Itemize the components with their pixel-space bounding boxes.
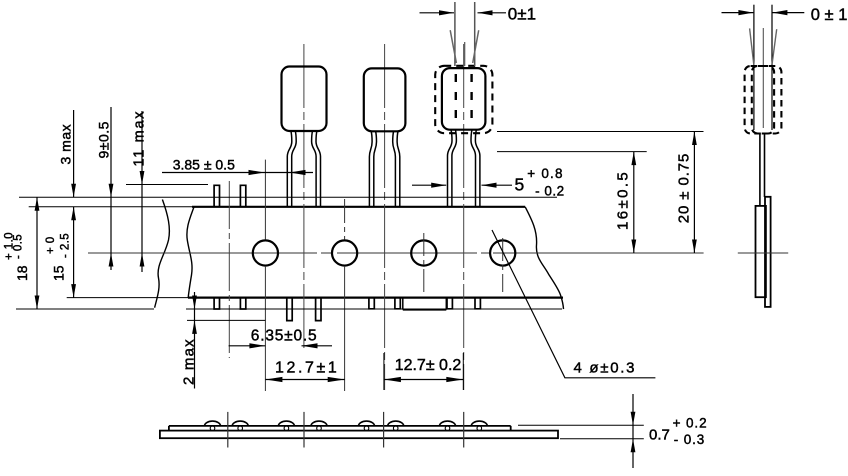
svg-text:+ 0.2: + 0.2 [673,416,708,431]
lead stub top-left position 1 [214,185,219,207]
crimped leads position 2 [287,131,292,207]
svg-text:+ 0.8: + 0.8 [527,166,563,181]
lead bump position 4R bottom view [471,421,487,426]
svg-text:11 max: 11 max [132,110,148,167]
node tape right break line [525,207,563,309]
node bottom view centerline 2 [303,412,305,448]
dimension 3 max [73,110,75,197]
svg-text:3.85 ± 0.5: 3.85 ± 0.5 [173,157,235,173]
capacitor position 4 inner dashed line left [455,74,457,118]
lead stub bottom-left position 2 [287,298,292,321]
node hole 4 centerline [502,238,504,292]
svg-text:16±0.5: 16±0.5 [615,170,632,230]
wire tape-bottom extension line left [67,297,188,299]
node position-1 centerline [228,181,230,358]
node position-2 centerline [303,44,305,352]
svg-text:- 0.3: - 0.3 [674,432,706,447]
wire reference line H1 (9mm ref) [19,196,557,198]
lead stub bottom-right position 2 [316,298,321,321]
svg-text:- 0.5: - 0.5 [13,234,25,259]
lead bump position 1L bottom view [205,421,221,426]
dimension 15 +0/-2.5 [73,207,75,298]
dimension 20±0.75 [693,132,695,254]
dimension 12.7±1 [265,379,344,381]
node bottom view centerline 4 [463,412,465,448]
dimension 16±0.5 [633,152,635,253]
crimped leads position 3 [369,131,372,207]
lead stub bottom-left position 1 [214,298,219,309]
capacitor position 4 dashed tolerance envelope [435,66,492,133]
node hole 2 centerline [344,199,346,240]
crimped leads position 4 [448,130,453,207]
node bottom view centerline 1 [227,412,229,448]
svg-text:- 0.2: - 0.2 [535,184,565,199]
capacitor body position 3 [364,68,406,131]
wire stub-top reference line [126,184,208,186]
capacitor body position 2 [282,67,327,132]
dimension 3.85±0.5 [162,172,313,174]
dimension 12.7±0.2 [384,379,463,381]
lead stub bottom-left position 3 [369,298,374,309]
wire bottom view bottom extension line [560,438,644,440]
svg-text:3 max: 3 max [58,124,74,165]
dimension 0±1 side view [722,12,754,14]
lead stub bottom-right position 4 [475,298,480,309]
lead stub bottom-left position 4 [447,298,452,309]
lead stub bottom-right position 3 [395,298,400,309]
dimension 2 max [194,292,196,389]
wire side view centerline [738,252,788,254]
sprocket hole 1 [253,240,278,265]
dimension 11 max [141,111,143,272]
lead stub top-right position 1 [240,185,245,207]
carrier tape bottom view [160,431,558,439]
lead bump position 2L bottom view [278,421,294,426]
lead stub bottom-right position 1 [240,298,245,309]
wire adhesive segment bottom edge [403,309,447,311]
lead bump position 1R bottom view [232,421,248,426]
leader line hole diameter [492,230,655,378]
dimension 9±0.5 [110,107,112,270]
capacitor body position 4 (solid) [442,68,486,130]
dimension 5 +0.8/-0.2 [412,184,446,186]
dimension 0.7 +0.2/-0.3 [632,394,634,468]
node bottom view centerline 3 [383,412,385,448]
svg-text:20 ± 0.75: 20 ± 0.75 [676,153,693,224]
svg-text:4 ø±0.3: 4 ø±0.3 [574,360,637,377]
node adhesive segment edge left [402,298,404,310]
node tape left break line A [155,200,170,308]
node hole 1 centerline [264,160,266,240]
sprocket hole 4 [490,240,515,265]
svg-text:+ 0: + 0 [45,236,57,254]
dimension 18 +1.0/-0.5 [36,197,38,309]
node tape left break line B [187,207,194,298]
wire crimp-bottom extension line (16 ref) [497,151,647,153]
wire 2max lower reference line [187,319,266,321]
lead bump position 2R bottom view [311,421,327,426]
splayed lead lines above position 4 [454,2,456,66]
capacitor position 4 inner dashed line right [470,74,472,118]
dimension 0±1 top main view [420,12,455,14]
capacitor body side view dashed (position B) [752,66,782,134]
wire tape horizontal centerline [88,252,317,254]
svg-text:5: 5 [515,175,525,195]
wire tape top edge [192,206,525,208]
node position-3 centerline [384,44,386,390]
wire position-3 extension line [383,353,385,390]
svg-text:6.35±0.5: 6.35±0.5 [251,328,318,345]
svg-text:18: 18 [14,265,30,281]
capacitor body side view dashed (position A) [745,66,775,134]
carrier tape side view [756,206,766,297]
node adhesive segment edge right [445,298,447,310]
adhesive tape strip bottom view [169,425,511,427]
lead bump position 4L bottom view [440,421,456,426]
splayed lead lines side view [753,5,755,130]
svg-text:0 ± 1: 0 ± 1 [811,6,848,24]
lead bump position 3L bottom view [359,421,375,426]
svg-text:2 max: 2 max [180,338,197,385]
sprocket hole 2 [332,240,357,265]
wire position-4 extension line [462,353,464,390]
node hole 3 centerline [423,233,425,296]
wire stub-bottom / adhesive-bottom line [16,308,154,310]
lead side view [759,134,761,207]
svg-text:0±1: 0±1 [508,4,536,23]
node position-4 centerline [463,44,465,390]
lead bump position 3R bottom view [388,421,404,426]
wire bottom view top extension line [518,424,644,426]
svg-text:- 2.5: - 2.5 [60,233,72,258]
svg-text:12.7± 0.2: 12.7± 0.2 [395,357,462,374]
svg-text:12.7±1: 12.7±1 [275,360,339,377]
wire tape-top extension line left [29,206,192,208]
dimension 6.35±0.5 [229,345,266,347]
svg-text:0.7: 0.7 [649,427,670,444]
svg-text:9±0.5: 9±0.5 [96,121,112,158]
wire body-bottom extension line (20 ref) [497,131,704,133]
wire tape bottom edge [188,297,563,299]
sprocket hole 3 [411,240,436,265]
svg-text:15: 15 [51,265,67,281]
adhesive tape side view [765,197,771,307]
